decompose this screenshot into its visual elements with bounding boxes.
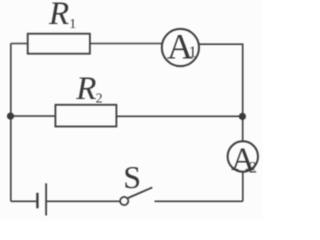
svg-text:2: 2	[96, 92, 103, 107]
svg-text:1: 1	[189, 44, 197, 61]
svg-text:S: S	[123, 159, 141, 195]
svg-text:2: 2	[249, 159, 257, 176]
svg-text:R: R	[48, 0, 69, 32]
svg-text:R: R	[75, 71, 96, 107]
svg-text:1: 1	[69, 17, 76, 32]
